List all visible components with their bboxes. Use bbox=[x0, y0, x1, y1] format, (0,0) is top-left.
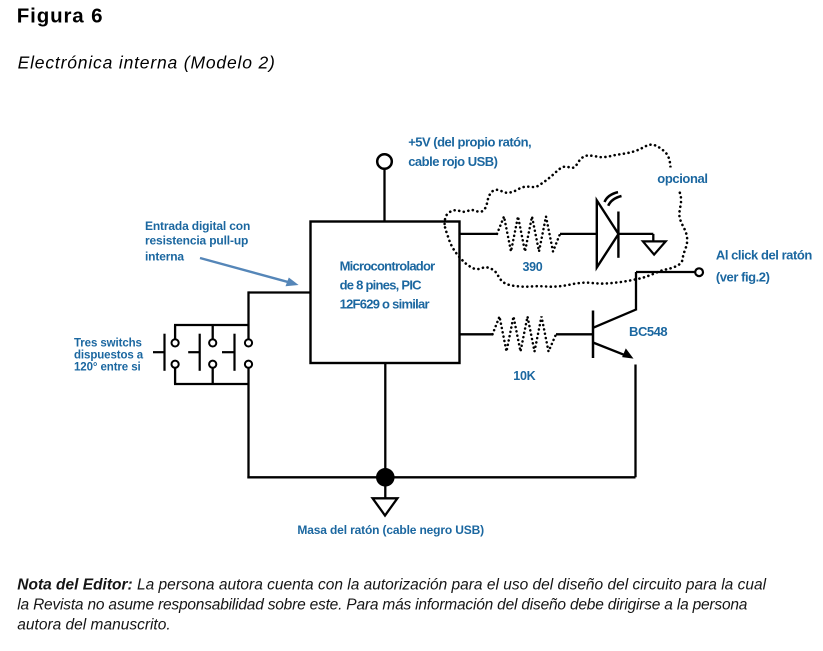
svg-text:Masa del ratón (cable negro US: Masa del ratón (cable negro USB) bbox=[297, 523, 484, 537]
svg-text:de 8 pines, PIC: de 8 pines, PIC bbox=[340, 278, 423, 293]
svg-text:BC548: BC548 bbox=[629, 324, 667, 339]
svg-text:dispuestos a: dispuestos a bbox=[74, 350, 144, 362]
svg-text:resistencia pull-up: resistencia pull-up bbox=[145, 233, 248, 247]
svg-text:interna: interna bbox=[145, 249, 184, 263]
svg-text:Figura 6: Figura 6 bbox=[17, 5, 104, 28]
svg-text:Tres switchs: Tres switchs bbox=[74, 338, 142, 350]
svg-text:120° entre si: 120° entre si bbox=[74, 361, 141, 373]
svg-text:autora del manuscrito.: autora del manuscrito. bbox=[17, 617, 170, 634]
svg-text:+5V (del propio ratón,: +5V (del propio ratón, bbox=[408, 134, 531, 149]
svg-text:Electrónica interna (Modelo 2): Electrónica interna (Modelo 2) bbox=[18, 53, 276, 73]
svg-text:12F629 o similar: 12F629 o similar bbox=[340, 297, 430, 312]
svg-text:la Revista no asume responsabi: la Revista no asume responsabilidad sobr… bbox=[17, 597, 747, 614]
svg-text:Entrada digital con: Entrada digital con bbox=[145, 219, 250, 233]
svg-text:10K: 10K bbox=[513, 369, 535, 383]
svg-text:opcional: opcional bbox=[657, 171, 707, 186]
svg-text:Microcontrolador: Microcontrolador bbox=[340, 259, 436, 274]
svg-text:cable rojo USB): cable rojo USB) bbox=[408, 154, 497, 169]
svg-text:390: 390 bbox=[523, 260, 543, 274]
svg-text:(ver fig.2): (ver fig.2) bbox=[716, 270, 770, 285]
svg-text:Al click del ratón: Al click del ratón bbox=[716, 248, 812, 263]
svg-text:Nota del Editor: La persona au: Nota del Editor: La persona autora cuent… bbox=[17, 577, 766, 594]
